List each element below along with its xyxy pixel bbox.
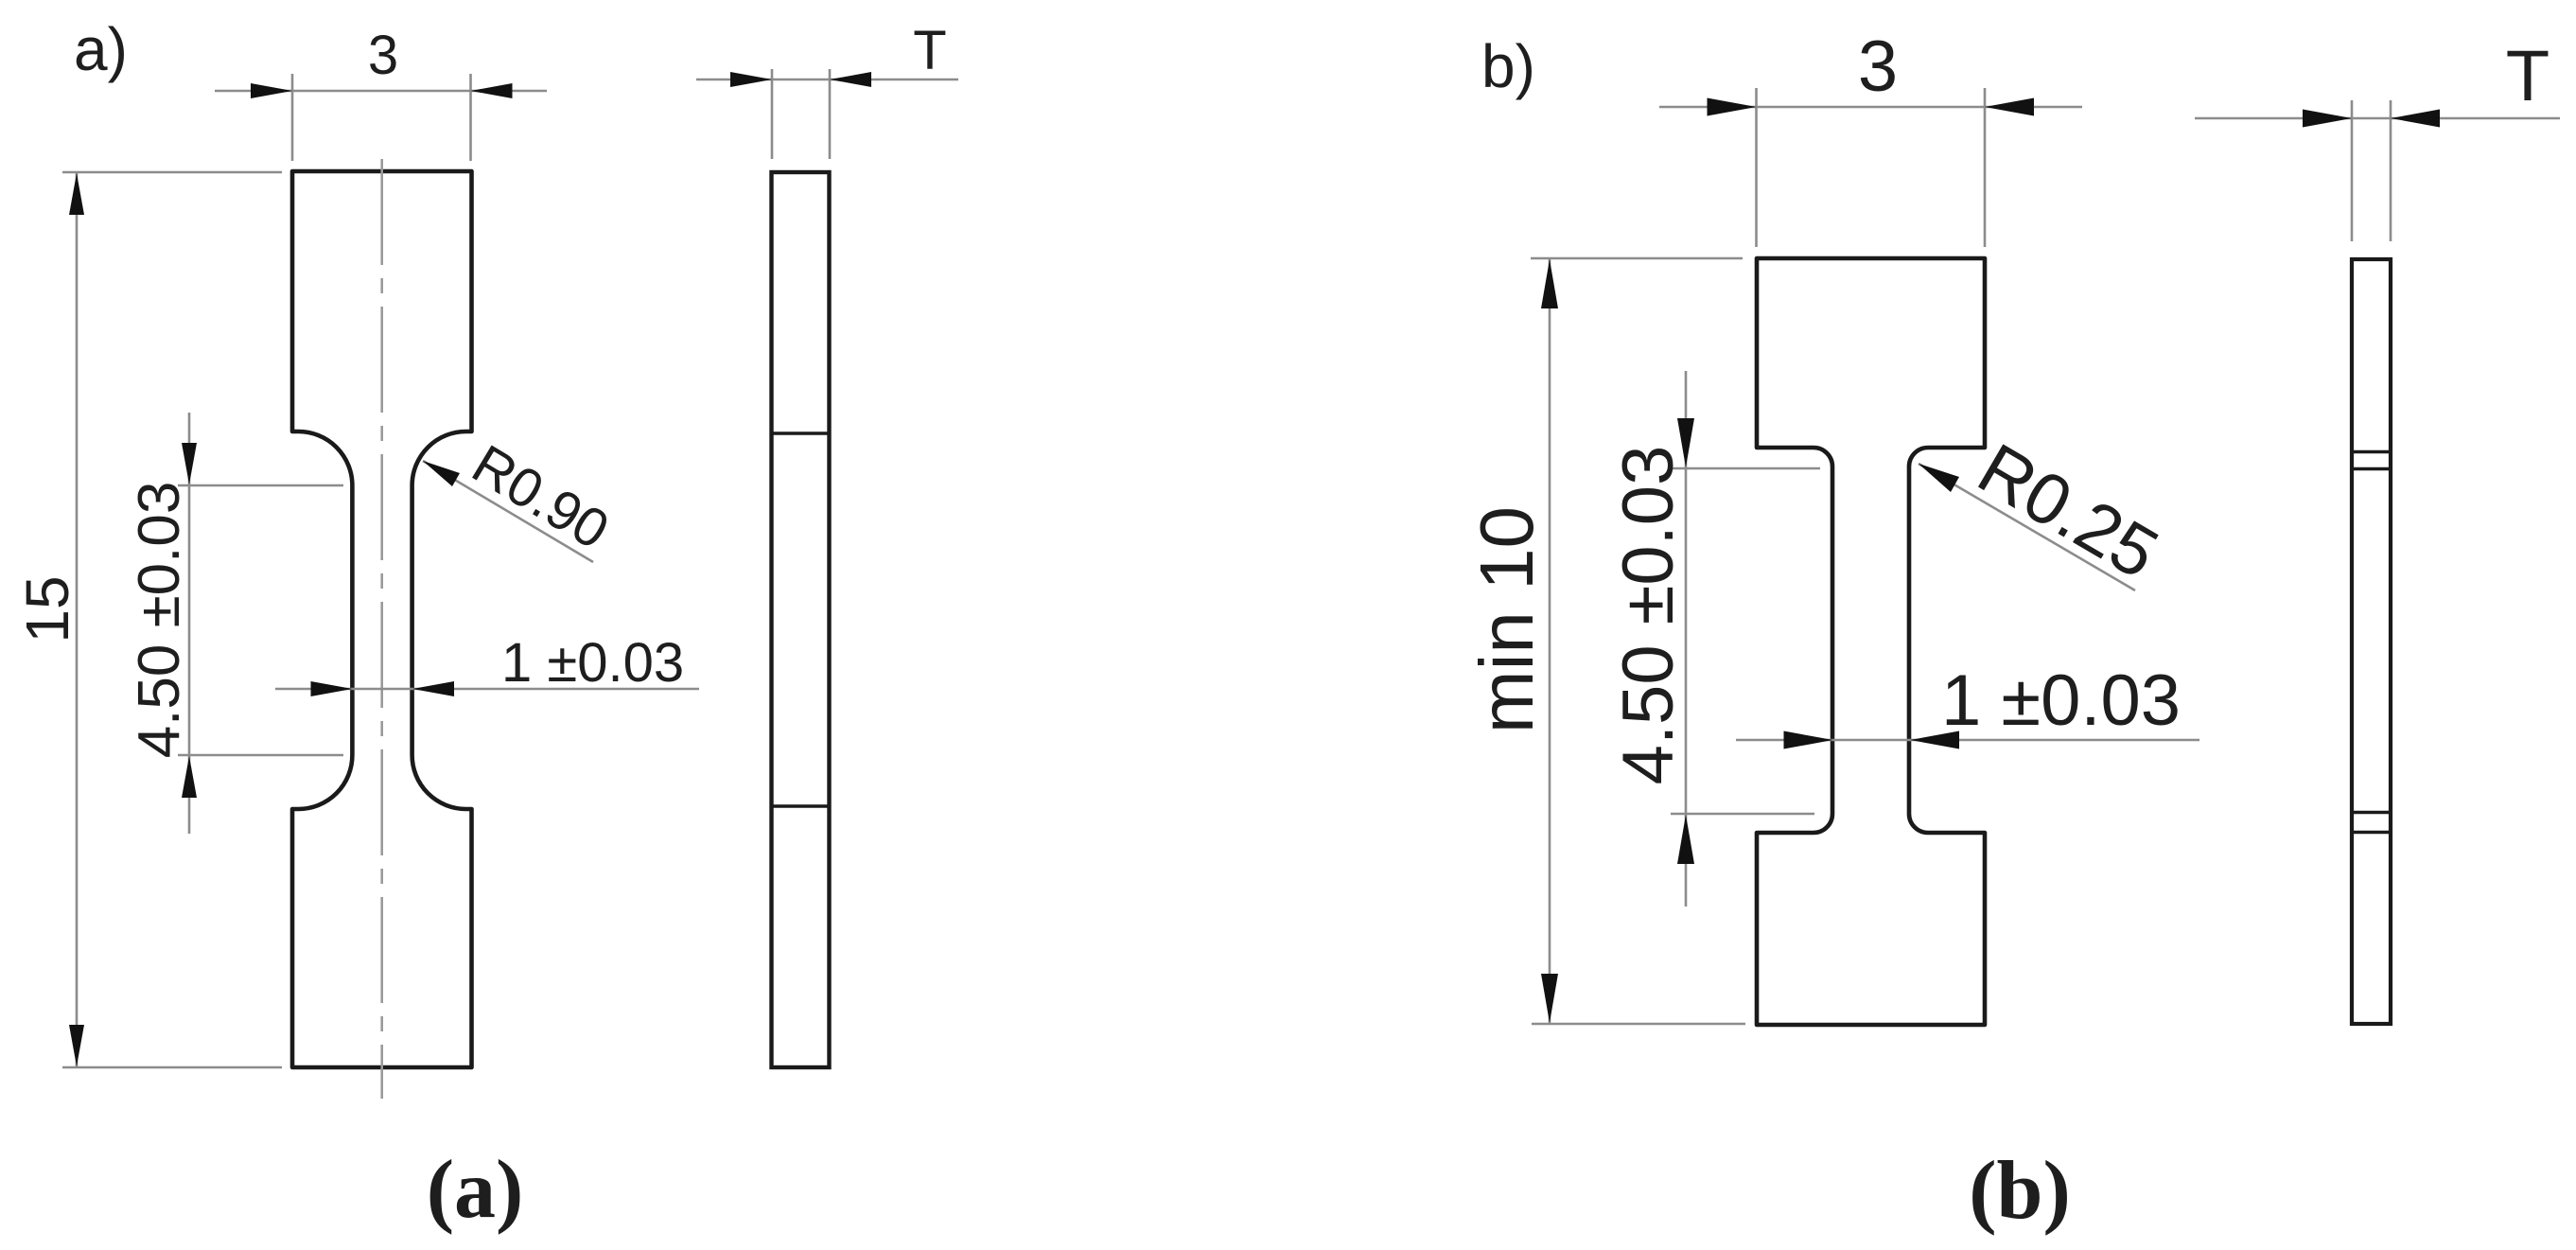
dimension 3 (a): value text xyxy=(368,25,398,86)
dimension 4.50 +/-0.03 (a): value text xyxy=(127,482,192,759)
svg-text:a): a) xyxy=(74,15,128,83)
dimension T (b): value text xyxy=(2506,36,2550,116)
svg-text:3: 3 xyxy=(368,25,398,86)
svg-text:4.50 ±0.03: 4.50 ±0.03 xyxy=(1608,446,1689,785)
radius leader R0.90 (a) xyxy=(423,433,619,562)
specimen A side view outline xyxy=(772,172,830,1067)
dimension 3 (b): dimension line with arrows xyxy=(1659,98,2082,116)
centerline of specimen A xyxy=(380,159,383,1099)
dimension 1 +/-0.03 (b): dimension line with arrows xyxy=(1736,731,2199,749)
svg-text:T: T xyxy=(2506,36,2550,116)
specimen A side view upper shoulder edge xyxy=(772,431,830,435)
specimen B side view outline xyxy=(2352,259,2391,1024)
dimension T (a): extension lines xyxy=(772,69,830,159)
dimension 3 (b): extension lines xyxy=(1757,88,1986,247)
svg-text:(b): (b) xyxy=(1969,1145,2071,1237)
dimension 4.50 +/-0.03 (a): extension lines xyxy=(178,485,343,755)
specimen B front view outline xyxy=(1757,258,1985,1025)
specimen A front view outline xyxy=(292,171,472,1067)
label b) xyxy=(1481,32,1535,100)
dimension T (a): value text xyxy=(913,20,946,81)
svg-text:1 ±0.03: 1 ±0.03 xyxy=(501,632,684,694)
dimension 3 (a): extension lines xyxy=(292,74,471,161)
dimension 15 (a): dimension line with arrows xyxy=(69,172,84,1067)
svg-text:b): b) xyxy=(1481,32,1535,100)
caption (a) xyxy=(427,1144,524,1236)
dimension 4.50 +/-0.03 (a): dimension line with arrows xyxy=(182,413,197,834)
radius leader R0.25 (b) xyxy=(1919,429,2171,595)
dimension T (b): dimension line with arrows xyxy=(2195,110,2560,128)
dimension 1 +/-0.03 (b): value text xyxy=(1941,660,2181,741)
svg-text:4.50 ±0.03: 4.50 ±0.03 xyxy=(127,482,192,759)
dimension min 10 (b): value text xyxy=(1464,506,1549,733)
svg-text:min 10: min 10 xyxy=(1464,506,1549,733)
dimension 15 (a): value text xyxy=(13,575,81,643)
dimension 1 +/-0.03 (a): dimension line with arrows xyxy=(275,681,699,696)
svg-text:3: 3 xyxy=(1858,26,1898,107)
dimension min 10 (b): dimension line with arrows xyxy=(1541,258,1558,1024)
dimension min 10 (b): extension lines xyxy=(1531,258,1745,1024)
dimension T (a): dimension line with arrows xyxy=(696,72,958,87)
dimension 4.50 +/-0.03 (b): dimension line with arrows xyxy=(1677,371,1694,907)
specimen B side view upper shoulder edges xyxy=(2352,452,2391,469)
dimension T (b): extension lines xyxy=(2352,100,2391,241)
svg-text:T: T xyxy=(913,20,946,81)
dimension 3 (b): value text xyxy=(1858,26,1898,107)
specimen B side view lower shoulder edges xyxy=(2352,813,2391,833)
specimen A side view lower shoulder edge xyxy=(772,804,830,808)
svg-text:1 ±0.03: 1 ±0.03 xyxy=(1941,660,2181,741)
label a) xyxy=(74,15,128,83)
dimension 15 (a): extension lines xyxy=(62,172,282,1067)
dimension 4.50 +/-0.03 (b): value text xyxy=(1608,446,1689,785)
caption (b) xyxy=(1969,1145,2071,1237)
svg-text:15: 15 xyxy=(13,575,81,643)
dimension 1 +/-0.03 (a): value text xyxy=(501,632,684,694)
dimension 4.50 +/-0.03 (b): extension lines xyxy=(1671,468,1820,814)
svg-text:(a): (a) xyxy=(427,1144,524,1236)
dimension 3 (a): dimension line with arrows xyxy=(215,83,547,98)
